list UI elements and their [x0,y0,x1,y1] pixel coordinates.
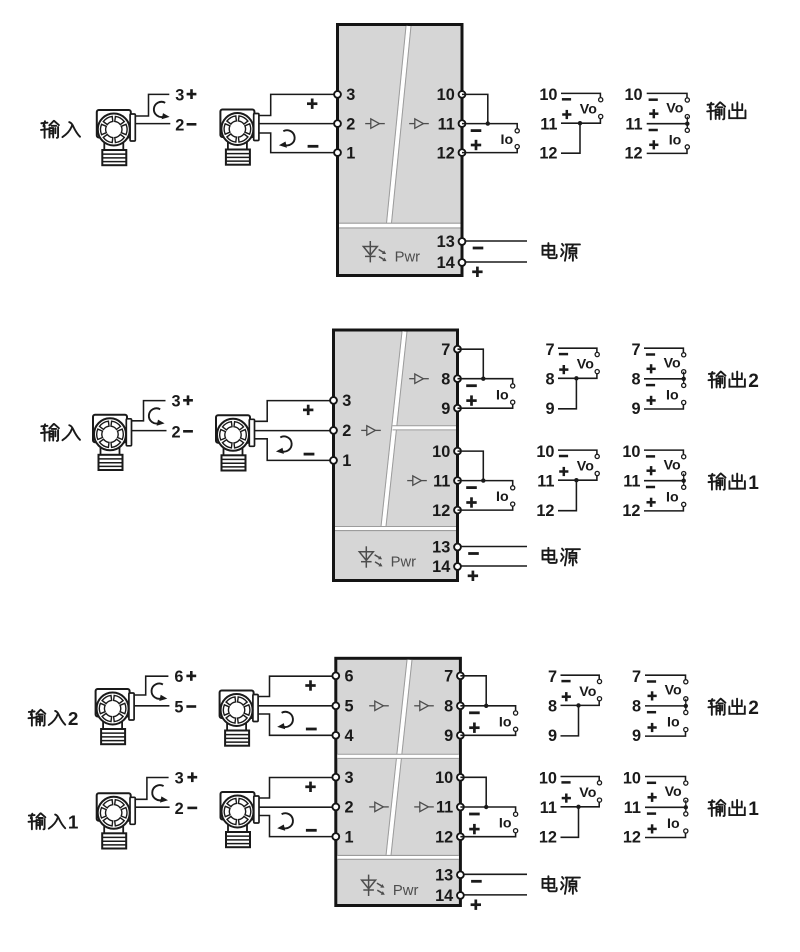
D2 Vo output circuit ch1 junction [574,478,578,482]
D3 Io output circuit ch2 plus label [469,723,479,733]
D3 ch1 wire to terminal 1 [260,816,336,837]
D2 Vo output circuit ch1 wire mid [558,476,597,480]
svg-text:10: 10 [437,86,455,104]
svg-text:7: 7 [545,341,554,359]
D2 power wire 14 [461,565,527,567]
svg-text:6: 6 [345,668,354,686]
D3 Vo output circuit ch1 plus label [562,794,571,803]
D3 Io output circuit ch1 minus label [469,813,480,816]
D3 Io output circuit ch2 junction [484,704,488,708]
D3 isolator U3 terminal 14 [457,892,464,899]
D3 isolator U3 terminal 9 [457,732,464,739]
D3 isolator U3 terminal 13 [457,871,464,878]
D2 Vo+Io output circuit ch2 wire bottom [644,405,683,409]
D2 wire to terminal 2 [255,430,334,432]
D2 Vo output circuit ch1 plus label [559,467,568,476]
D3 Io output circuit ch2 minus label [469,711,480,714]
D1 power minus label [473,247,484,250]
D1 transmitter 2 [220,110,259,165]
D1 isolator U1 isolation barrier diagonal [389,26,409,223]
D3 ch1 transmitter 2 [221,792,260,847]
svg-text:10: 10 [622,443,640,461]
D3 ch1 wire to terminal 2 [260,806,336,808]
D3 ch1 rotation arrow [152,785,168,802]
D1 isolator U1 amplifier 1 [365,119,385,128]
svg-text:5: 5 [174,699,183,717]
svg-text:14: 14 [432,558,450,576]
D1 Io output circuit wire terminal-mid to load [462,124,517,129]
D3 Vo+Io output circuit ch2 minus label Io [647,711,656,714]
D3 Vo+Io output circuit ch2 wire mid [645,705,686,707]
svg-text:11: 11 [540,799,557,817]
svg-text:Vo: Vo [577,459,594,475]
D3 Vo output circuit ch2 terminal top [597,679,601,683]
svg-text:3: 3 [345,769,354,787]
D2 isolator U2 terminal 13 [454,544,461,551]
D1 Vo+Io output circuit link junction to terminals [686,117,688,131]
svg-text:11: 11 [438,115,455,133]
D2 Vo+Io output circuit ch2 wire mid [644,378,684,380]
diagram 1 input label 输入 [41,121,59,138]
D3 ch1 wire 2- from transmitter [136,806,170,808]
D2 Vo+Io output circuit ch2 junction [682,377,686,381]
D2 isolator U2 amplifier 1 [361,426,381,435]
D1 Vo+Io output circuit plus label Io [649,140,658,149]
svg-text:9: 9 [441,400,450,418]
D2 minus label at box [304,453,315,456]
svg-text:Io: Io [666,489,679,505]
svg-text:9: 9 [444,727,453,745]
D1 plus label at box [307,99,317,109]
svg-text:11: 11 [624,799,641,817]
svg-text:10: 10 [432,443,450,461]
svg-text:12: 12 [432,502,450,520]
svg-text:1: 1 [68,812,79,833]
diagram 3 output label 输出2 [708,699,725,715]
D2 isolator U2 terminal 8 [454,375,461,382]
svg-text:7: 7 [441,341,450,359]
svg-text:14: 14 [437,254,455,272]
D3 Io output circuit ch1 wire terminal-mid to load [460,807,515,812]
svg-text:14: 14 [435,887,453,905]
D2 Vo output circuit ch2 junction [574,376,578,380]
D3 Vo+Io output circuit ch1 minus label Vo [647,782,656,785]
D1 wire to terminal 2 [259,123,337,125]
svg-text:3: 3 [175,770,184,788]
D3 ch2 plus label [186,671,196,681]
D2 Vo+Io output circuit ch1 Io terminal top [682,485,686,489]
D3 ch1 transmitter 1 [97,793,136,848]
svg-text:Io: Io [496,489,509,505]
D3 ch2 rotation arrow [152,684,168,701]
D2 isolator U2 terminal 12 [454,507,461,514]
D1 plus label [187,89,197,99]
D2 Io output circuit ch1 wire terminal-top to junction [458,451,484,481]
D3 Vo+Io output circuit ch1 junction [684,805,688,809]
D1 Io output circuit load terminal top [515,129,519,133]
D2 Vo+Io output circuit ch2 plus label Io [647,396,656,405]
D2 Vo+Io output circuit ch1 plus label Vo [647,466,656,475]
svg-text:10: 10 [539,86,557,104]
D2 isolator U2 isolation barrier diagonal [384,332,405,527]
D3 Io output circuit ch1 plus label [469,824,479,834]
D3 ch2 transmitter 2 [220,691,259,746]
svg-text:11: 11 [623,472,640,490]
D3 ch1 wire 3+ from transmitter [136,778,169,800]
D2 plus label at box [303,405,313,415]
svg-text:12: 12 [539,144,557,162]
D3 Io output circuit ch2 wire terminal-bot to load [460,731,515,735]
D1 isolator U1 terminal 3 [334,91,341,98]
D2 Vo+Io output circuit ch1 plus label Io [647,498,656,507]
D3 Vo output circuit ch2 junction [576,703,580,707]
D1 Vo+Io output circuit Vo terminal bottom [685,115,689,119]
D3 isolator U3 module body [336,658,461,905]
D2 Vo output circuit ch1 minus label [559,455,568,458]
D3 Vo+Io output circuit ch2 link junction to terminals [685,699,687,713]
svg-text:2: 2 [748,371,759,392]
svg-text:12: 12 [622,502,640,520]
svg-text:10: 10 [435,769,453,787]
D2 isolator U2 power LED [359,546,382,567]
D2 isolator U2 terminal 11 [454,477,461,484]
D3 Vo output circuit ch2 wire mid [561,701,600,705]
D3 isolator U3 terminal 10 [457,774,464,781]
D3 Vo+Io output circuit ch2 plus label Io [648,723,657,732]
D3 Io output circuit ch2 load terminal bottom [514,727,518,731]
svg-text:13: 13 [435,867,453,885]
diagram 3 input label 输入1 [29,813,46,829]
D3 Io output circuit ch2 wire terminal-mid to load [460,706,515,711]
D2 Vo+Io output circuit ch1 junction [682,479,686,483]
D2 power minus label [468,552,479,555]
D1 isolator U1 terminal 1 [334,149,341,156]
svg-text:12: 12 [623,829,641,847]
D3 Vo+Io output circuit ch2 minus label Vo [647,680,656,683]
D3 Vo+Io output circuit ch1 wire bottom [645,833,686,837]
D2 Vo output circuit ch2 wire link to pin 9 [558,378,576,409]
D2 power wire 13 [461,546,527,548]
D2 Vo output circuit ch2 wire mid [558,374,597,378]
D1 wire to terminal 1 [259,133,337,153]
D3 power minus label [471,880,482,883]
D3 isolator U3 terminal 11 [457,804,464,811]
D2 Io output circuit ch2 wire terminal-mid to load [458,379,513,384]
D2 Vo+Io output circuit ch2 Vo terminal bottom [682,370,686,374]
D2 isolator U2 amplifier 3 [407,476,427,485]
D2 wire to terminal 3 [255,401,334,422]
D1 Io output circuit minus label [471,129,482,132]
D2 Vo+Io output circuit ch2 Io terminal top [682,383,686,387]
svg-text:10: 10 [623,769,641,787]
D2 transmitter 2 [216,415,255,470]
svg-text:7: 7 [632,668,641,686]
D2 minus label [183,430,193,433]
D3 Vo output circuit ch1 wire link to pin 12 [561,807,579,838]
D3 Io output circuit ch1 junction [484,805,488,809]
D2 Vo output circuit ch1 wire link to pin 12 [558,480,576,511]
D3 Io output circuit ch1 wire terminal-bot to load [460,833,515,837]
svg-text:8: 8 [444,698,453,716]
D2 Vo+Io output circuit ch2 minus label Vo [646,353,655,356]
D1 isolator U1 terminal 2 [334,120,341,127]
svg-text:Pwr: Pwr [391,555,417,571]
D1 Vo output circuit plus label [562,110,571,119]
D1 isolator U1 power LED [363,241,386,262]
D2 Io output circuit ch2 load terminal bottom [511,400,515,404]
D3 ch2 minus label at box [306,728,317,731]
D2 isolator U2 amplifier 2 [409,374,429,383]
D3 ch2 wire to terminal 6 [259,676,336,696]
D2 Vo output circuit ch2 terminal top [595,352,599,356]
D3 isolator U3 power section divider [337,855,459,859]
svg-text:7: 7 [444,668,453,686]
D3 isolator U3 terminal 6 [332,672,339,679]
svg-text:Vo: Vo [665,784,682,800]
D2 wire 2- from transmitter [132,430,167,432]
D2 Vo output circuit ch1 terminal mid [595,471,599,475]
D1 Vo+Io output circuit wire mid [647,123,688,125]
D3 ch1 minus label at box [306,829,317,832]
diagram 2 output label 输出2 [709,372,726,388]
D3 ch2 wire to terminal 4 [259,714,336,735]
D2 Vo+Io output circuit ch2 Vo terminal top [682,353,686,357]
svg-text:4: 4 [345,727,354,745]
svg-text:Vo: Vo [579,684,596,700]
svg-text:12: 12 [624,144,642,162]
D3 ch2 wire to terminal 5 [259,705,336,707]
D2 wire 3+ from transmitter [132,401,166,421]
D2 Io output circuit ch2 minus label [466,384,477,387]
D1 Vo+Io output circuit Io terminal top [685,128,689,132]
D1 Vo+Io output circuit minus label Io [649,129,658,132]
D3 Vo+Io output circuit ch2 Io terminal top [684,710,688,714]
D3 Vo+Io output circuit ch1 wire top [645,777,686,781]
D3 Vo output circuit ch1 wire top [561,777,600,781]
svg-text:11: 11 [433,472,450,490]
D1 wire to terminal 3 [259,94,337,115]
svg-text:10: 10 [536,443,554,461]
D1 Vo output circuit minus label [562,98,571,101]
svg-text:12: 12 [536,502,554,520]
svg-text:1: 1 [748,473,759,494]
D2 Vo+Io output circuit ch2 minus label Io [646,384,655,387]
svg-text:Vo: Vo [665,683,682,699]
D3 power wire 14 [464,894,527,896]
svg-text:Io: Io [496,387,509,403]
D3 ch2 wire 5- from transmitter [135,705,170,707]
D1 Io output circuit wire terminal-top to junction [462,94,488,123]
D1 Vo output circuit wire link to pin 12 [561,123,580,153]
svg-text:9: 9 [545,400,554,418]
svg-text:11: 11 [436,799,453,817]
D2 Io output circuit ch1 junction [481,478,485,482]
D2 Io output circuit ch2 load terminal top [511,384,515,388]
D3 ch1 minus label [187,807,197,810]
D2 rotation arrow [149,408,165,425]
svg-text:2: 2 [175,800,184,818]
svg-text:Io: Io [501,132,514,148]
svg-text:Io: Io [666,388,679,404]
D1 power plus label [472,267,482,277]
D1 Vo+Io output circuit junction [685,122,689,126]
D3 Vo+Io output circuit ch1 Vo terminal top [684,781,688,785]
svg-text:Io: Io [669,132,682,148]
D3 ch2 minus label [186,705,196,708]
D3 Vo output circuit ch1 junction [576,805,580,809]
svg-text:9: 9 [548,727,557,745]
svg-text:2: 2 [345,799,354,817]
svg-text:3: 3 [175,86,184,104]
D2 Vo output circuit ch2 terminal mid [595,370,599,374]
svg-text:Vo: Vo [579,785,596,801]
D1 transmitter 1 [97,110,136,165]
D1 Vo output circuit wire mid [561,119,600,123]
D3 Io output circuit ch1 load terminal bottom [514,829,518,833]
D2 Vo+Io output circuit ch2 Io terminal bottom [682,400,686,404]
svg-text:7: 7 [548,668,557,686]
D2 isolator U2 terminal 10 [454,448,461,455]
D3 ch2 wire 6+ from transmitter [135,676,169,695]
D3 isolator U3 isolation barrier diagonal [389,660,410,856]
svg-text:11: 11 [540,115,557,133]
D3 Vo+Io output circuit ch1 Vo terminal bottom [684,798,688,802]
svg-text:Vo: Vo [580,102,597,118]
diagram 3 output label 输出1 [708,800,725,816]
D2 Vo output circuit ch2 plus label [559,365,568,374]
D3 Vo+Io output circuit ch2 plus label Vo [648,691,657,700]
D1 minus label [187,123,197,126]
svg-text:8: 8 [631,371,640,389]
svg-text:8: 8 [548,698,557,716]
D2 power supply label 电源 [543,548,557,563]
D1 isolator U1 amplifier 2 [409,119,429,128]
D1 wire 2- from transmitter [136,123,171,125]
svg-text:Io: Io [667,715,680,731]
D3 Vo+Io output circuit ch1 minus label Io [647,812,656,815]
D1 Io output circuit load terminal bottom [515,145,519,149]
D3 ch2 rotation arrow 2 [277,712,293,729]
D3 Vo+Io output circuit ch1 plus label Io [648,824,657,833]
svg-text:12: 12 [435,828,453,846]
D3 Vo+Io output circuit ch1 link junction to terminals [685,800,687,814]
svg-text:Vo: Vo [577,357,594,373]
D3 Io output circuit ch1 wire terminal-top to junction [460,777,486,807]
D2 plus label [183,395,193,405]
svg-text:1: 1 [345,828,354,846]
diagram 2 input label 输入 [41,424,59,441]
D1 Vo+Io output circuit Vo terminal top [685,98,689,102]
D2 Io output circuit ch2 junction [481,377,485,381]
D3 ch1 rotation arrow 2 [277,813,293,830]
svg-text:Vo: Vo [664,356,681,372]
D2 isolator U2 terminal 2 [330,427,337,434]
D3 power supply label 电源 [543,876,557,891]
D3 isolator U3 amplifier 1 [369,701,389,710]
D3 isolator U3 amplifier 3 [369,802,389,811]
D2 rotation arrow 2 [276,436,292,453]
D3 Vo+Io output circuit ch2 wire top [645,675,686,679]
D1 Vo+Io output circuit wire top [647,93,687,97]
D3 Io output circuit ch1 load terminal top [514,812,518,816]
D3 Vo output circuit ch2 wire link to pin 9 [561,705,579,736]
D3 isolator U3 terminal 3 [332,774,339,781]
D2 Io output circuit ch2 wire terminal-top to junction [458,349,484,379]
D3 Vo output circuit ch1 minus label [561,781,570,784]
D2 power plus label [468,571,478,581]
D3 isolator U3 terminal 7 [457,672,464,679]
D3 Io output circuit ch2 load terminal top [514,711,518,715]
D3 isolator U3 terminal 12 [457,833,464,840]
D2 Vo+Io output circuit ch2 plus label Vo [647,364,656,373]
svg-text:2: 2 [175,116,184,134]
D2 isolator U2 terminal 14 [454,563,461,570]
D3 ch1 plus label [187,772,197,782]
svg-text:8: 8 [545,371,554,389]
D1 rotation arrow 2 [279,130,295,147]
D1 Vo output circuit terminal top [599,98,603,102]
D2 isolator U2 power section divider [335,527,456,531]
D1 isolator U1 terminal 12 [459,149,466,156]
D3 isolator U3 terminal 1 [332,833,339,840]
svg-text:11: 11 [625,115,642,133]
D2 Io output circuit ch2 plus label [466,395,476,405]
diagram 3 input label 输入2 [29,710,46,726]
D2 Vo+Io output circuit ch1 minus label Vo [646,455,655,458]
D2 Vo+Io output circuit ch1 Io terminal bottom [682,502,686,506]
D1 Vo output circuit junction [578,121,582,125]
D2 Vo+Io output circuit ch1 link junction to terminals [683,474,685,488]
svg-text:6: 6 [174,668,183,686]
svg-text:2: 2 [172,423,181,441]
D2 Vo+Io output circuit ch1 wire top [644,450,683,454]
D1 wire 3+ from transmitter [136,94,170,116]
D2 isolator U2 terminal 1 [330,457,337,464]
svg-text:2: 2 [342,422,351,440]
svg-text:1: 1 [346,144,355,162]
D3 isolator U3 power LED [362,875,385,896]
D1 power wire 14 [465,261,527,263]
D1 Vo+Io output circuit wire bottom [647,149,687,153]
D2 Vo output circuit ch1 terminal top [595,454,599,458]
svg-text:7: 7 [631,341,640,359]
svg-text:13: 13 [432,539,450,557]
D2 Io output circuit ch1 minus label [466,486,477,489]
svg-text:Pwr: Pwr [395,249,421,265]
D1 Io output circuit plus label [471,140,481,150]
D2 wire to terminal 1 [255,439,334,461]
D3 Io output circuit ch2 wire terminal-top to junction [460,676,486,706]
svg-text:Vo: Vo [664,457,681,473]
D2 isolator U2 terminal 9 [454,405,461,412]
D2 transmitter 1 [93,415,132,470]
D3 isolator U3 terminal 2 [332,804,339,811]
D2 Vo output circuit ch1 wire top [558,450,597,454]
svg-text:9: 9 [631,400,640,418]
D1 Io output circuit junction [486,121,490,125]
D2 Vo+Io output circuit ch2 wire top [644,348,683,352]
D3 Vo output circuit ch2 terminal mid [597,697,601,701]
D3 isolator U3 amplifier 4 [414,802,434,811]
D3 Vo+Io output circuit ch2 Vo terminal bottom [684,697,688,701]
D2 Io output circuit ch1 plus label [466,497,476,507]
svg-text:8: 8 [632,698,641,716]
svg-text:2: 2 [68,709,79,730]
svg-text:13: 13 [437,233,455,251]
svg-text:9: 9 [632,727,641,745]
D3 Vo+Io output circuit ch1 Io terminal top [684,812,688,816]
D1 power supply label 电源 [543,243,557,258]
